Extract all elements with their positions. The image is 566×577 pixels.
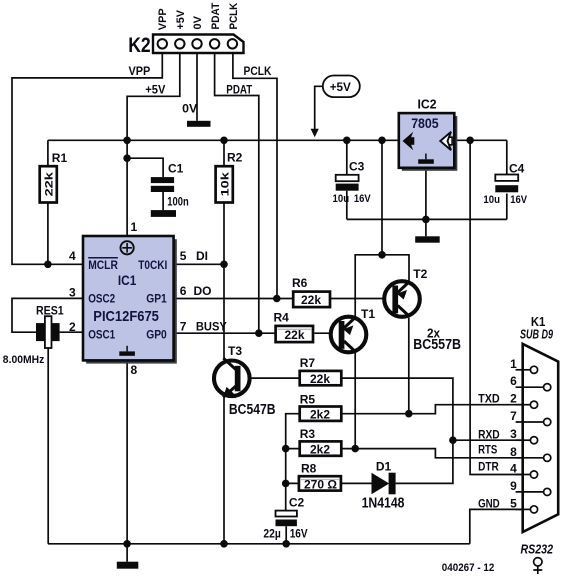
wire T1 collector to R3 row [354,353,356,449]
svg-text:5: 5 [510,496,517,510]
wire R2 branch rail to DI row [223,140,225,264]
svg-text:6: 6 [510,374,517,388]
svg-text:1: 1 [131,220,138,234]
svg-text:BUSY: BUSY [196,320,227,334]
svg-text:TXD: TXD [478,392,500,406]
ground bar 0V terminal [187,121,211,127]
capacitor C1 [151,162,189,209]
wire GND row from K1 pin5 [470,509,531,543]
svg-text:R1: R1 [52,151,68,165]
wire T1 T2 emitter rail [355,255,409,317]
svg-text:22k: 22k [310,372,330,386]
microcontroller IC1 PIC12F675 [83,236,177,364]
capacitor C4 [483,162,527,207]
svg-text:C3: C3 [349,160,365,174]
resistor R3 [300,427,342,457]
svg-text:VPP: VPP [129,64,151,78]
wire C4 branch [506,140,508,219]
svg-text:+5V: +5V [175,9,187,29]
svg-text:270 Ω: 270 Ω [304,477,337,491]
wire R7 to RXD and D1 [341,378,453,483]
svg-text:16V: 16V [290,527,308,541]
wire ground rail bottom [48,543,470,545]
svg-text:C4: C4 [509,162,525,176]
svg-text:7: 7 [180,320,187,334]
svg-text:10u: 10u [333,193,350,205]
svg-text:T3: T3 [228,344,242,358]
svg-text:RXD: RXD [478,428,500,442]
svg-text:PCLK: PCLK [244,64,272,78]
node rail/R2 [220,137,228,145]
connector K2 [128,34,243,57]
voltage regulator IC2 [399,97,458,171]
wire RXD row [453,439,531,441]
wire DTR to 7805 input [470,140,531,474]
svg-text:1: 1 [510,357,517,371]
svg-text:6: 6 [180,284,187,298]
wire R6 to T2 base [329,298,394,300]
svg-text:DTR: DTR [478,460,499,474]
transistor T3 BC547B [214,344,276,418]
svg-text:BC557B: BC557B [413,337,461,353]
node RXD/R7/D1 [449,436,457,444]
node C1 branch [123,154,131,162]
svg-text:4: 4 [69,249,76,263]
wire DI row [174,263,224,265]
resistor R1 [40,151,68,203]
wire T3 emitter to ground rail [223,397,225,544]
K1 pin 5 GND [478,496,538,513]
svg-text:8: 8 [131,363,138,377]
svg-text:100n: 100n [167,195,188,209]
svg-text:D1: D1 [376,460,392,474]
K1 pin 3 RXD [478,427,538,444]
svg-text:R6: R6 [292,276,308,290]
svg-text:7: 7 [510,409,517,423]
supply +5V flag [311,76,360,138]
resonator RES1 8.00MHz [3,304,64,367]
svg-text:C2: C2 [289,496,305,510]
K1 pin 8 RTS [478,443,551,462]
node ground rail/T3 emitter [220,540,228,548]
resistor R8 [299,462,341,492]
K1 pin 2 TXD [478,392,538,409]
svg-text:DO: DO [194,284,212,298]
svg-text:SUB D9: SUB D9 [520,326,554,341]
wire RTS zigzag from R3 [341,449,531,458]
resistor R5 [300,393,342,422]
svg-text:RS232: RS232 [521,542,554,557]
wire C3 branch [346,140,348,219]
svg-text:GP1: GP1 [146,291,167,305]
svg-text:R7: R7 [300,356,316,370]
svg-text:PDAT: PDAT [226,83,252,97]
wire R4 to T1 base [314,332,340,334]
wire IC1 pin8 to ground rail [126,360,128,543]
svg-text:VPP: VPP [157,8,169,30]
wire IC2 ground pin [425,168,427,237]
svg-text:9: 9 [510,479,517,493]
wire PCLK from K2 pin5 to DO row [233,53,277,299]
wire PDAT from K2 pin4 to BUSY row [215,53,259,333]
wire C1 bottom to 0V bar [162,192,164,210]
svg-text:R8: R8 [301,462,317,476]
svg-text:16V: 16V [354,193,371,205]
svg-text:10k: 10k [220,171,232,196]
svg-text:BC547B: BC547B [229,402,276,418]
wire T2 collector to R5 row [408,318,410,414]
node rail/emitter drop [378,137,386,145]
node rail/C3 [343,137,351,145]
svg-text:T2: T2 [413,267,427,281]
svg-text:RES1: RES1 [36,304,64,318]
ground bar under C1 [151,210,176,217]
svg-text:R4: R4 [274,310,290,324]
wire R1 branch rail to MCLR row [47,140,49,264]
svg-text:K2: K2 [128,34,151,57]
wire OSC2 to resonator [12,298,83,332]
svg-text:3: 3 [510,427,517,441]
capacitor C2 [263,496,307,541]
svg-text:0V: 0V [182,102,197,116]
svg-text:T0CKI: T0CKI [138,258,167,272]
svg-text:0V: 0V [192,15,204,29]
ground symbol under IC2 [415,236,440,242]
svg-text:22µ: 22µ [263,527,280,541]
resistor R2 [216,151,243,203]
svg-text:1N4148: 1N4148 [362,495,405,512]
svg-text:2k2: 2k2 [310,443,330,457]
K1 pin 6 [510,374,551,391]
female connector symbol [533,558,542,574]
wire +5V from K2 pin2 to rail and IC1 pin1 [127,53,180,237]
K1 pin 9 [510,479,551,496]
wire BUSY row [174,332,275,334]
svg-text:R3: R3 [300,427,316,441]
wire T3 base to R7 [240,377,300,379]
wire +5V rail [48,139,507,141]
svg-text:GP0: GP0 [146,328,167,342]
node rail/+5V drop [123,137,131,145]
resistor R4 [274,310,314,342]
svg-text:22k: 22k [285,328,305,342]
K1 pin 7 [510,409,551,426]
svg-text:8.00MHz: 8.00MHz [3,354,45,366]
K1 pin 1 [510,357,537,374]
svg-text:PCLK: PCLK [228,3,240,30]
wire 0V from K2 pin3 [196,53,198,121]
transistor T1 BC557B [331,307,376,352]
wire TXD zigzag from R5 [341,405,531,414]
svg-text:C1: C1 [168,162,184,176]
svg-text:R2: R2 [227,151,243,165]
node R3 left [282,445,290,453]
svg-text:3: 3 [69,286,76,300]
node T2 collector/R5 [405,410,413,418]
node emitter rail [378,251,386,259]
node BUSY/PDAT/R4 [255,329,263,337]
wire T3 collector to DI [223,264,225,359]
node ground rail/C2 [282,540,290,548]
wire ground bus under IC2 [347,218,507,220]
svg-text:4: 4 [510,462,517,476]
svg-text:+5V: +5V [330,80,351,94]
svg-text:22k: 22k [301,293,321,307]
wire +5V drop to emitter rail [381,140,383,255]
svg-text:IC2: IC2 [418,97,437,112]
svg-text:PIC12F675: PIC12F675 [93,308,159,325]
svg-text:IC1: IC1 [118,272,137,288]
svg-text:+5V: +5V [145,83,165,97]
svg-text:OSC2: OSC2 [88,291,115,305]
svg-text:MCLR: MCLR [88,258,118,272]
svg-text:DI: DI [196,249,208,263]
K1 pin 4 DTR [478,460,538,479]
node rail/DTR vertical [466,137,474,145]
node DO/PCLK/R6 [273,295,281,303]
svg-text:RTS: RTS [478,443,497,457]
node ground rail/IC1 pin8 [123,540,131,548]
resistor R6 [292,276,330,307]
svg-text:OSC1: OSC1 [88,328,115,342]
node R8 left [282,480,290,488]
svg-text:2: 2 [510,392,517,406]
resistor R7 [300,356,342,386]
svg-text:8: 8 [510,445,517,459]
wire DO row [174,298,293,300]
wire C2 bottom to ground rail [285,526,287,544]
node DI/R2/T3 collector [220,261,228,269]
svg-text:7805: 7805 [411,115,439,131]
svg-text:2: 2 [69,320,76,334]
svg-text:GND: GND [478,497,500,511]
svg-text:PDAT: PDAT [210,2,222,29]
node IC2 ground [422,216,430,224]
svg-text:22k: 22k [43,171,55,196]
ground symbol bottom rail [117,544,139,569]
svg-text:R5: R5 [300,393,316,407]
svg-text:16V: 16V [510,194,527,206]
svg-text:040267 - 12: 040267 - 12 [442,562,495,574]
svg-text:2k2: 2k2 [310,408,330,422]
diode D1 1N4148 [362,460,405,512]
wire RES1 center pin to ground rail [47,348,49,544]
svg-text:10u: 10u [483,194,500,206]
wire +5V arrow feed [315,86,323,130]
transistor T2 BC557B [384,267,427,317]
svg-text:5: 5 [180,249,187,263]
wire VPP from K2 pin1 to MCLR [12,53,162,264]
capacitor C3 [333,160,372,206]
connector K1 SUB D9 [520,314,558,532]
wire R8 to D1 anode [341,482,372,484]
svg-text:T1: T1 [361,307,375,321]
wire R5 R3 R8 left bus to C2 [286,414,300,511]
wire OSC1 to resonator [60,331,83,333]
node R1/MCLR junction [44,261,52,269]
node T1 collector/R3 [351,445,359,453]
wire C1 branch [127,158,163,177]
